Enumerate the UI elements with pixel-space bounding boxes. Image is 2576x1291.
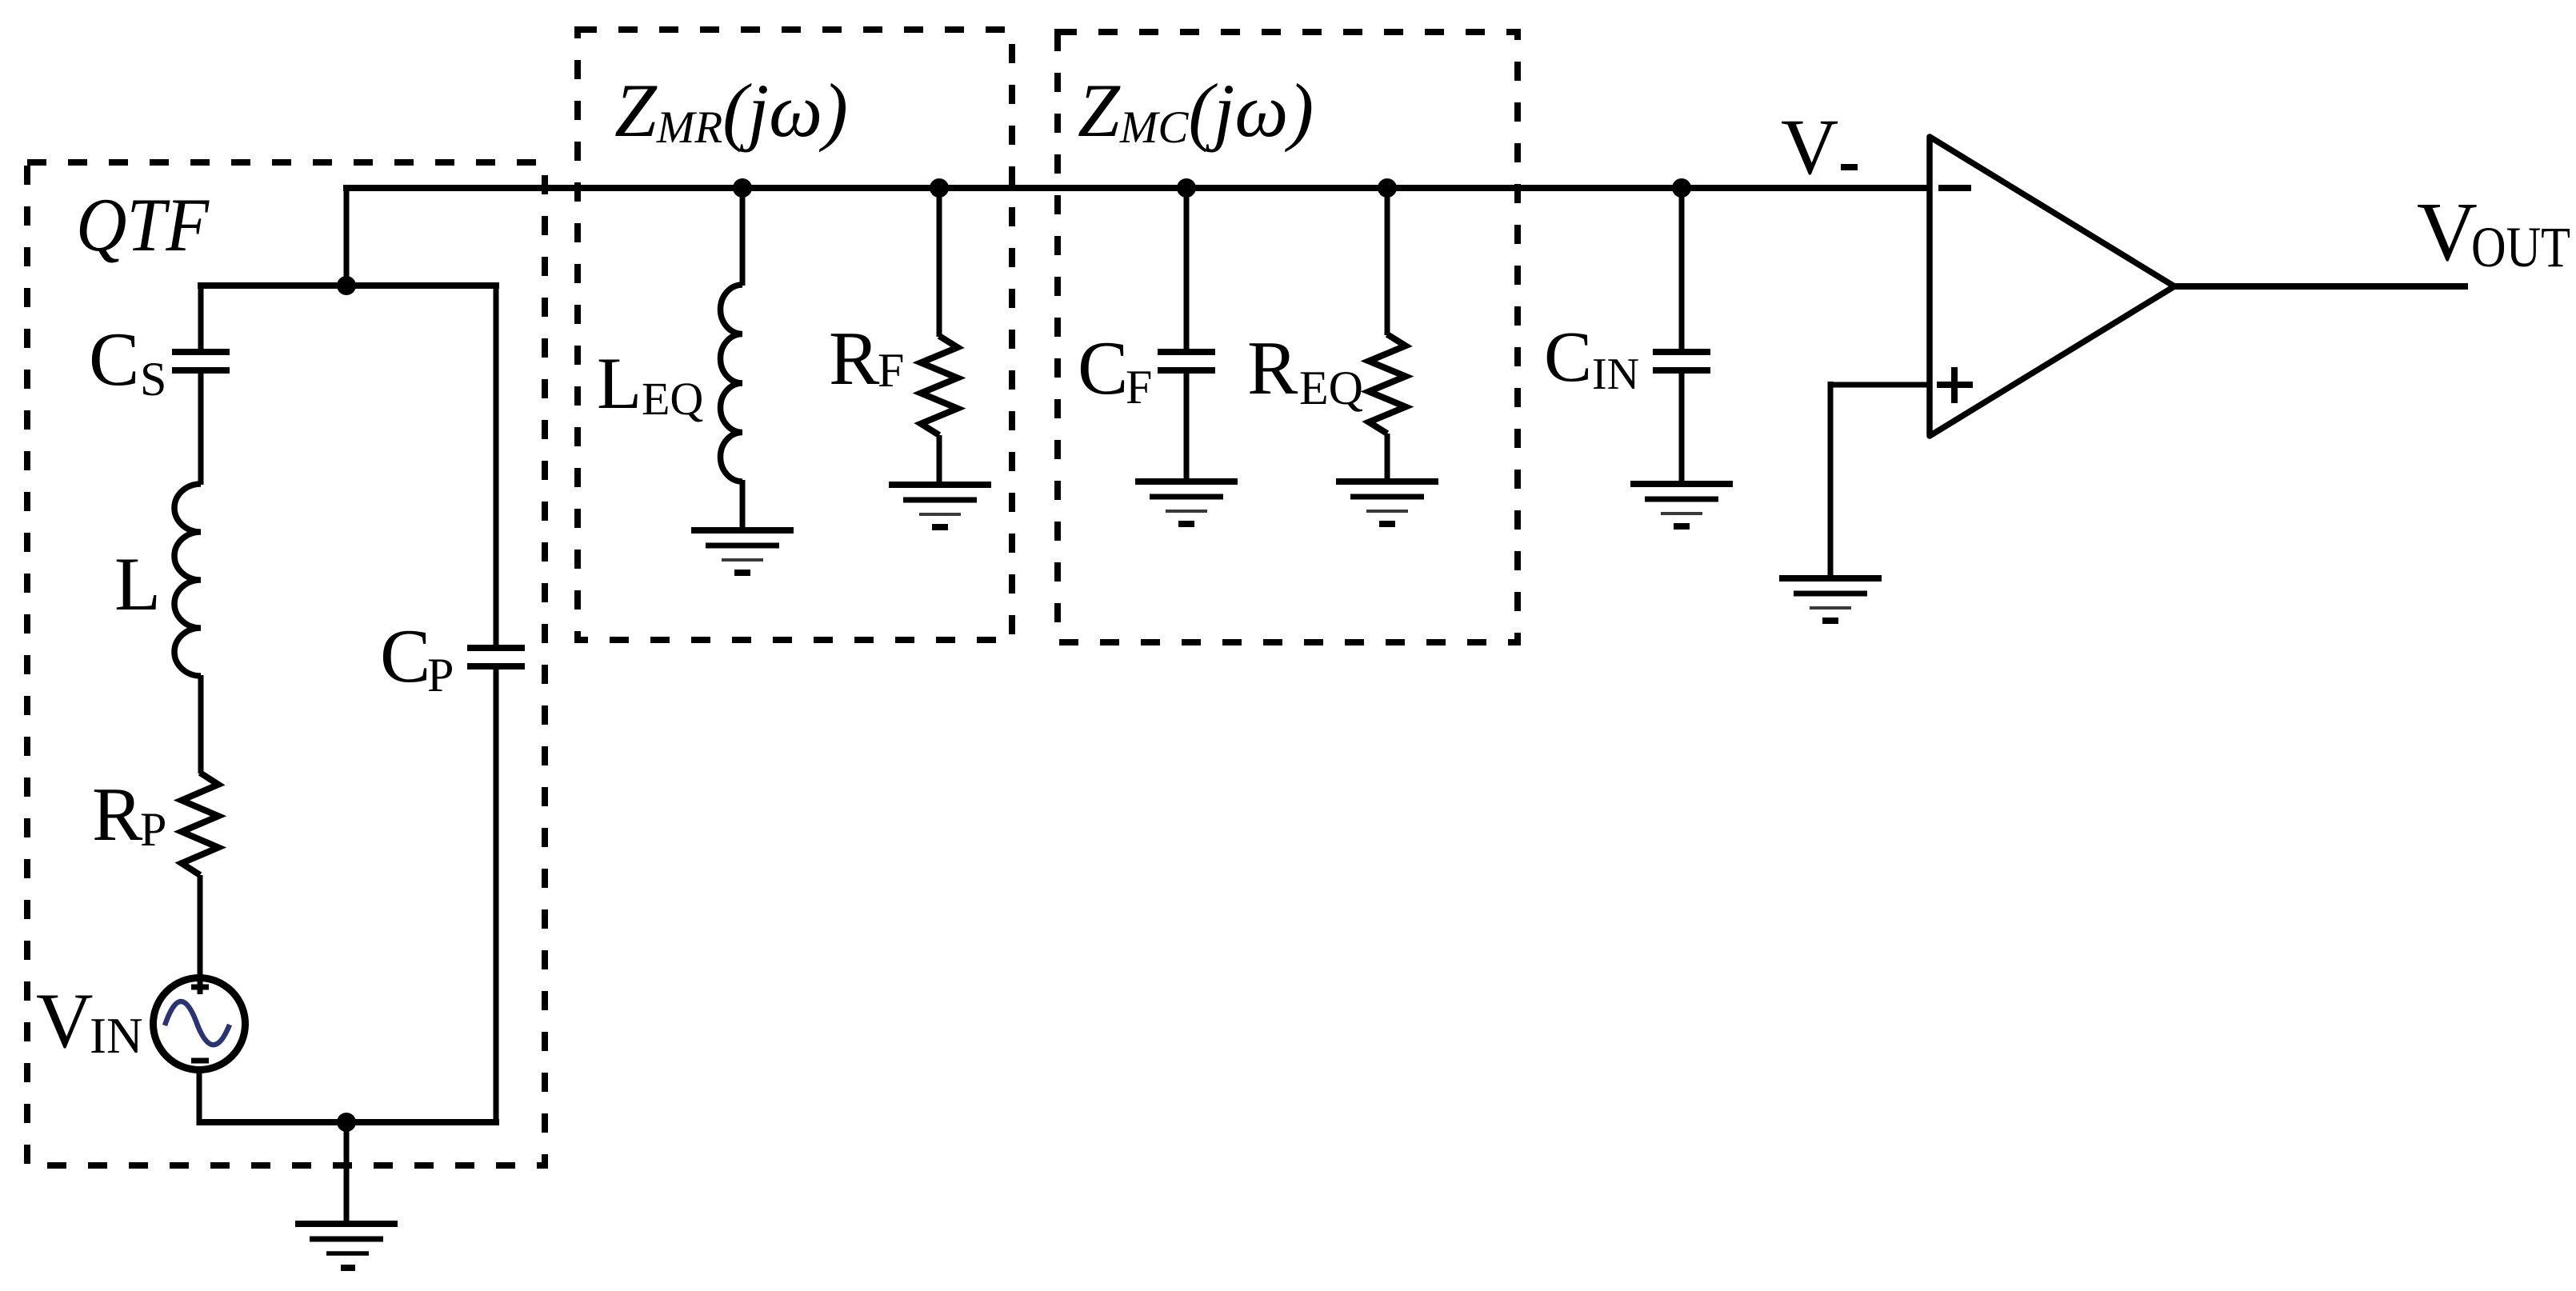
svg-text:L: L <box>114 542 161 626</box>
svg-text:P: P <box>427 649 454 701</box>
svg-text:R: R <box>92 772 143 857</box>
V- subscript minus mark <box>1841 164 1858 170</box>
svg-text:C: C <box>380 614 430 698</box>
svg-text:ZMC(jω): ZMC(jω) <box>1078 68 1314 153</box>
svg-text:OUT: OUT <box>2471 215 2570 279</box>
wire RF top lead <box>937 188 942 337</box>
svg-text:EQ: EQ <box>642 373 703 425</box>
inductor LEQ <box>720 285 742 482</box>
svg-text:EQ: EQ <box>1299 362 1363 414</box>
wire op-amp noninverting input <box>1830 382 1930 388</box>
wire REQ ground stem <box>1385 434 1390 483</box>
svg-text:L: L <box>597 342 642 424</box>
wire QTF bottom rail <box>197 1119 499 1125</box>
junction node RF node <box>930 178 949 198</box>
svg-text:ZMR(jω): ZMR(jω) <box>614 68 848 153</box>
ground CIN <box>1630 484 1733 526</box>
svg-text:C: C <box>1078 326 1128 410</box>
svg-text:F: F <box>878 344 904 397</box>
capacitor CP <box>467 648 525 666</box>
wire CF top lead <box>1184 188 1190 350</box>
wire QTF riser <box>344 185 350 286</box>
svg-text:F: F <box>1126 361 1152 414</box>
wire op-amp output <box>2170 283 2468 290</box>
wire CF ground stem <box>1184 372 1190 483</box>
op-amp noninverting pin plus mark <box>1937 367 1973 403</box>
ground RF <box>889 485 991 527</box>
wire CP bottom lead <box>494 668 499 1124</box>
resistor RP <box>182 773 218 875</box>
wire RP to VIN <box>198 875 203 994</box>
junction node QTF bottom node <box>337 1113 356 1132</box>
capacitor CIN <box>1653 352 1710 370</box>
resistor RF <box>921 336 958 435</box>
VIN minus terminal mark <box>191 1058 209 1064</box>
VIN plus terminal mark <box>191 985 209 990</box>
capacitor CF <box>1158 352 1215 370</box>
svg-text:C: C <box>1544 318 1592 397</box>
svg-text:R: R <box>829 316 880 401</box>
op-amp U1 triangle <box>1930 137 2174 436</box>
junction node CIN node <box>1672 178 1691 198</box>
wire main bus to op-amp inverting input <box>343 185 1930 191</box>
wire CS top lead <box>198 282 204 350</box>
wire CIN ground stem <box>1679 372 1685 486</box>
VIN sine symbol <box>165 1001 230 1045</box>
wire L to RP <box>198 675 204 773</box>
wire CP top lead <box>494 282 499 646</box>
resistor REQ <box>1369 334 1406 434</box>
wire RF ground stem <box>937 435 942 486</box>
dashed box QTF (quartz tuning fork equivalent circuit) <box>27 162 545 1165</box>
inductor L <box>174 484 201 676</box>
dashed box ZMC <box>1058 32 1518 642</box>
svg-text:IN: IN <box>1592 350 1639 399</box>
junction node REQ node <box>1378 178 1397 198</box>
svg-text:V: V <box>36 977 94 1065</box>
svg-text:V: V <box>1781 102 1838 191</box>
capacitor CS <box>172 352 230 370</box>
svg-text:IN: IN <box>90 1008 142 1064</box>
dashed box ZMR <box>578 30 1012 640</box>
wire LEQ ground stem <box>740 480 746 532</box>
ground CF <box>1135 482 1238 524</box>
wire VIN to bottom rail <box>197 1069 202 1125</box>
svg-text:V: V <box>2417 185 2478 278</box>
voltage source VIN circle <box>154 978 246 1070</box>
ground REQ <box>1336 482 1438 524</box>
wire CIN top lead <box>1679 188 1685 350</box>
svg-text:QTF: QTF <box>76 182 210 267</box>
op-amp inverting pin minus mark <box>1938 185 1971 191</box>
svg-text:R: R <box>1247 326 1298 410</box>
wire CS to L <box>198 372 204 485</box>
wire LEQ top lead <box>740 188 746 286</box>
wire QTF top rail <box>198 282 499 289</box>
junction node LEQ node <box>733 178 752 198</box>
ground QTF <box>295 1224 398 1268</box>
svg-text:C: C <box>89 317 139 402</box>
wire noninverting ground stem <box>1828 382 1834 580</box>
svg-text:P: P <box>140 803 166 856</box>
wire ground stem QTF <box>344 1122 350 1224</box>
junction node CF node <box>1177 178 1196 198</box>
svg-text:S: S <box>140 353 166 406</box>
junction node QTF top node <box>337 276 356 295</box>
wire REQ top lead <box>1385 188 1390 335</box>
ground LEQ <box>691 530 794 573</box>
ground op-amp positive input <box>1779 578 1882 621</box>
